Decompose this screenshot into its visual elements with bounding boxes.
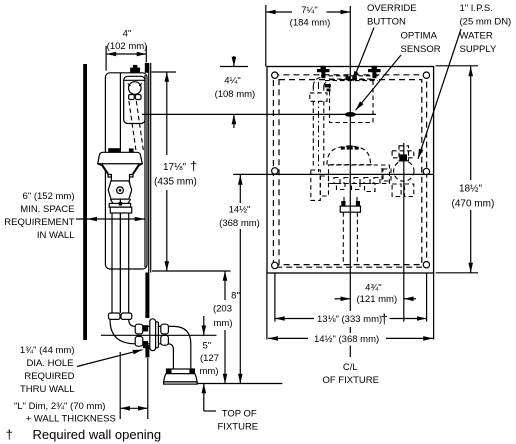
svg-text:(203: (203 bbox=[213, 303, 232, 314]
svg-text:OPTIMA: OPTIMA bbox=[401, 31, 438, 42]
flushometer valve cover (side view) bbox=[98, 152, 143, 164]
wall stub above enclosure (right wall) bbox=[145, 63, 149, 73]
svg-text:WATER: WATER bbox=[460, 31, 493, 42]
dimension 4" (102 mm): line and arrows bbox=[106, 53, 146, 55]
wall opening bottom extension line bbox=[152, 270, 231, 272]
dimension 7 1/4: extension line bbox=[265, 5, 267, 67]
svg-text:BUTTON: BUTTON bbox=[367, 16, 406, 27]
dimension 5" (127 mm): arrows bbox=[203, 316, 205, 335]
bracket screw left (black) bbox=[317, 69, 330, 72]
top of fixture leader elbow bbox=[204, 410, 216, 412]
svg-text:IN WALL: IN WALL bbox=[37, 230, 75, 241]
dashed flush tube inside enclosure bbox=[129, 101, 136, 150]
dashed flush tube (front view) bbox=[312, 86, 314, 168]
dimension 13 1/8: line and arrows bbox=[275, 318, 314, 320]
svg-text:(121 mm): (121 mm) bbox=[356, 294, 397, 305]
dimension 18 1/2: extension lines bbox=[436, 65, 478, 67]
svg-text:1¾" (44 mm): 1¾" (44 mm) bbox=[20, 345, 75, 356]
sensor cable nuts bbox=[129, 95, 135, 100]
L dim extension lines bbox=[119, 352, 121, 419]
dashed opening border (inner) bbox=[279, 80, 422, 265]
svg-text:MIN. SPACE: MIN. SPACE bbox=[20, 204, 74, 215]
svg-text:Required wall opening: Required wall opening bbox=[33, 427, 162, 442]
sensor housing collar bbox=[124, 79, 145, 81]
down pipes in wall bbox=[111, 213, 113, 313]
vertical centerline of fixture bbox=[349, 6, 351, 311]
svg-text:6" (152 mm): 6" (152 mm) bbox=[23, 191, 75, 202]
leader override button bbox=[353, 28, 374, 82]
svg-text:8": 8" bbox=[231, 290, 240, 301]
extension lines below panel bbox=[266, 273, 268, 340]
outlet tube down (dashed) bbox=[342, 212, 344, 262]
outlet centerline bbox=[101, 334, 217, 336]
leader optima sensor bbox=[356, 55, 401, 110]
svg-text:4¾": 4¾" bbox=[365, 282, 382, 293]
elbow inner curve bbox=[129, 320, 135, 327]
right wall below opening (lower black bar) bbox=[145, 345, 149, 358]
supply stop handle center (black) bbox=[399, 154, 407, 161]
dimension 8" (203 mm): vertical line with arrows bbox=[224, 271, 226, 300]
outlet connectors above flange (dashed) bbox=[343, 197, 345, 206]
wall opening panel outline bbox=[267, 67, 434, 274]
svg-text:(470 mm): (470 mm) bbox=[452, 198, 495, 209]
dashed opening border (outer) bbox=[273, 75, 426, 267]
svg-text:†: † bbox=[190, 159, 197, 174]
svg-text:4¼": 4¼" bbox=[224, 75, 241, 86]
dimension 4 1/4: arrows bbox=[233, 56, 235, 67]
svg-text:C/L: C/L bbox=[343, 362, 358, 373]
svg-text:†: † bbox=[6, 427, 13, 442]
tube top black fittings bbox=[325, 84, 331, 87]
dimension 17 1/8: vertical line with arrows bbox=[166, 72, 168, 155]
tailpiece to tube (dashed) bbox=[311, 170, 321, 200]
svg-text:(25 mm DN): (25 mm DN) bbox=[460, 16, 512, 27]
supply stop body (dashed) bbox=[394, 161, 414, 181]
svg-text:1" I.P.S.: 1" I.P.S. bbox=[460, 3, 493, 14]
taper below hex bbox=[110, 199, 130, 203]
svg-text:17⅛": 17⅛" bbox=[163, 162, 186, 173]
sensor housing bbox=[124, 76, 145, 123]
leader for dia. hole note bbox=[77, 350, 143, 367]
spud nuts (wall left side) bbox=[135, 324, 143, 334]
water supply vertical line bbox=[403, 143, 405, 322]
black fitting on valve cap left bbox=[108, 148, 120, 152]
pipe coupling nuts bbox=[109, 313, 121, 319]
dimension 18 1/2: line and arrows bbox=[470, 67, 472, 181]
vertical tube line inside enclosure bbox=[119, 73, 121, 313]
svg-text:OF FIXTURE: OF FIXTURE bbox=[322, 375, 378, 386]
mounting holes bbox=[272, 72, 278, 78]
valve body shoulder taper bbox=[98, 164, 143, 184]
dimension 14 1/2 (left view): vertical line with arrows bbox=[239, 175, 241, 203]
svg-text:(368 mm): (368 mm) bbox=[219, 218, 260, 229]
supply stop outlet nuts (dashed) bbox=[392, 184, 401, 197]
valve dome (dashed) bbox=[327, 146, 371, 164]
top mounting bracket (dashed) bbox=[321, 75, 381, 77]
svg-text:REQUIREMENT: REQUIREMENT bbox=[4, 217, 74, 228]
svg-text:(102 mm): (102 mm) bbox=[107, 41, 148, 52]
dome top black ticks bbox=[341, 147, 345, 150]
outlet flange bbox=[340, 206, 360, 212]
elbow turning down to fixture bbox=[174, 326, 191, 369]
leader water supply bbox=[418, 29, 461, 159]
svg-text:†: † bbox=[381, 312, 389, 327]
bracket screw right (black) bbox=[368, 69, 381, 72]
valve horizontal centerline bbox=[233, 173, 434, 175]
black cap on top of enclosure bbox=[130, 68, 140, 73]
svg-text:DIA. HOLE: DIA. HOLE bbox=[27, 358, 74, 369]
valve body nuts below (dashed) bbox=[337, 184, 346, 190]
wall (left, side view) bbox=[83, 64, 87, 340]
outlet coupling bbox=[109, 203, 130, 207]
sensor eye bbox=[129, 82, 142, 95]
bell flange base bbox=[164, 382, 198, 384]
valve body (dashed) bbox=[329, 165, 390, 184]
svg-text:14½": 14½" bbox=[229, 204, 251, 215]
svg-text:7¼": 7¼" bbox=[301, 5, 318, 16]
svg-text:(127: (127 bbox=[200, 353, 219, 364]
top of fixture reference line bbox=[197, 383, 282, 385]
valve body teeth details (dashed) bbox=[334, 178, 340, 184]
svg-text:mm): mm) bbox=[200, 366, 219, 377]
enclosure inner right line bbox=[144, 75, 146, 267]
svg-text:4": 4" bbox=[123, 29, 132, 40]
bell flange skirt bbox=[164, 374, 197, 382]
tube top bend (dashed) bbox=[313, 78, 321, 87]
spud nuts (wall right side) bbox=[161, 324, 169, 334]
L dim arrows bbox=[120, 407, 148, 409]
optima sensor (black) bbox=[345, 112, 356, 117]
stop screw bbox=[117, 187, 124, 194]
svg-text:13⅛" (333 mm): 13⅛" (333 mm) bbox=[317, 314, 382, 325]
dimension 4" (102 mm): extension lines bbox=[105, 46, 107, 71]
dimension 6" min space: line with arrows bbox=[87, 218, 144, 220]
svg-text:SUPPLY: SUPPLY bbox=[460, 44, 497, 55]
valve enclosure box bbox=[105, 73, 147, 269]
black spud rings at wall hole bbox=[143, 325, 148, 331]
sensor horizontal centerline bbox=[142, 113, 376, 115]
dimension 4 1/4: top extension bbox=[220, 66, 248, 68]
right wall below opening (upper black bar) bbox=[145, 273, 149, 319]
svg-text:THRU WALL: THRU WALL bbox=[20, 384, 75, 395]
dimension 4 3/4: arrows bbox=[335, 298, 351, 300]
svg-text:(184 mm): (184 mm) bbox=[290, 17, 331, 28]
svg-text:(108 mm): (108 mm) bbox=[215, 89, 256, 100]
right wall finish lines bbox=[148, 63, 150, 273]
wall flange escutcheon bbox=[150, 319, 156, 351]
svg-text:+ WALL THICKNESS: + WALL THICKNESS bbox=[26, 414, 116, 425]
svg-text:REQUIRED: REQUIRED bbox=[24, 371, 74, 382]
flush tube coupling (dashed) bbox=[310, 93, 327, 101]
svg-text:FIXTURE: FIXTURE bbox=[218, 422, 259, 433]
svg-text:mm): mm) bbox=[214, 318, 233, 329]
control stop hex bbox=[108, 181, 132, 199]
elbow to wall (outer curve) bbox=[110, 320, 135, 344]
dimension 17 1/8: top extension line bbox=[152, 71, 177, 73]
dimension 7 1/4: line and arrows bbox=[266, 11, 292, 13]
svg-text:14½" (368 mm): 14½" (368 mm) bbox=[314, 334, 379, 345]
bell flange ring bbox=[167, 369, 195, 374]
svg-text:OVERRIDE: OVERRIDE bbox=[367, 3, 417, 14]
svg-text:18½": 18½" bbox=[459, 183, 482, 194]
horizontal pipe through wall bbox=[135, 325, 175, 327]
svg-text:TOP OF: TOP OF bbox=[222, 408, 257, 419]
sensor box (dashed) bbox=[330, 79, 374, 123]
override button black marks at center bbox=[346, 76, 351, 80]
svg-text:5": 5" bbox=[202, 340, 211, 351]
dimension 14 1/2 bottom: line and arrows bbox=[268, 337, 308, 339]
flush tube dash-dot centerline bbox=[318, 82, 320, 172]
tube connector black mark on valve cap bbox=[129, 148, 134, 152]
svg-text:(435 mm): (435 mm) bbox=[154, 177, 197, 188]
svg-text:SENSOR: SENSOR bbox=[401, 44, 441, 55]
supply stop cross handle (dashed) bbox=[399, 146, 409, 161]
svg-text:"L" Dim, 2¾" (70 mm): "L" Dim, 2¾" (70 mm) bbox=[14, 401, 105, 412]
